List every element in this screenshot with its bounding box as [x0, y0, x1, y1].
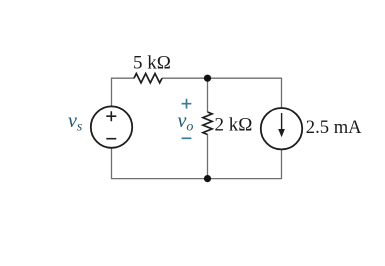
node junction dot bottom — [204, 175, 211, 182]
resistor R2 2 kOhm (vertical zigzag) — [203, 112, 212, 135]
voltage source Vs circle — [91, 106, 132, 147]
wire middle branch top — [207, 78, 209, 112]
node junction dot top — [204, 75, 211, 82]
label minus (v_o polarity) — [182, 137, 192, 139]
wire top from resistor to top-right corner — [162, 78, 282, 108]
svg-text:2 kΩ: 2 kΩ — [215, 115, 253, 136]
svg-text:5 kΩ: 5 kΩ — [133, 53, 171, 74]
current source I1 circle — [261, 108, 302, 149]
voltage source plus sign — [106, 111, 116, 121]
current source arrow — [281, 113, 283, 130]
wire bottom rail — [112, 148, 282, 179]
label plus (v_o polarity) — [182, 99, 192, 109]
voltage source minus sign — [106, 138, 116, 140]
wire middle branch bottom — [207, 135, 209, 179]
svg-text:2.5 mA: 2.5 mA — [306, 117, 362, 138]
wire top-left corner to resistor — [112, 78, 135, 106]
resistor R1 5 kOhm (horizontal zigzag) — [134, 74, 162, 83]
